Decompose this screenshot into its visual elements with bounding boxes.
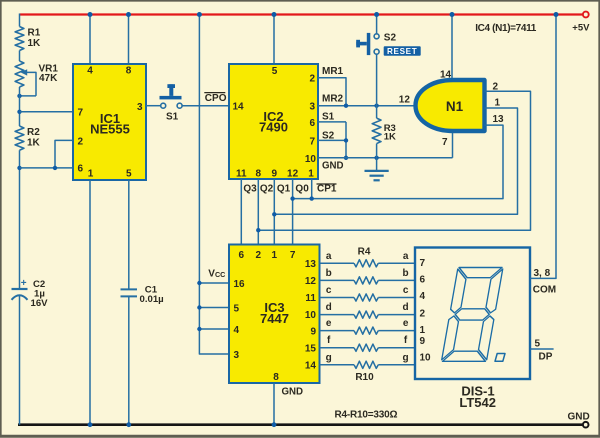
wire Q2 to N1 pin2 — [258, 91, 530, 230]
junction pin1 gnd — [88, 422, 93, 427]
wire Q0 to N1 pin13 — [293, 125, 503, 199]
svg-text:+: + — [21, 278, 27, 289]
resistor R7 — [354, 311, 378, 318]
svg-text:e: e — [326, 318, 332, 329]
node CPO — [204, 93, 226, 104]
svg-text:7: 7 — [442, 137, 448, 148]
svg-text:0.01µ: 0.01µ — [140, 294, 164, 305]
svg-text:a: a — [326, 251, 332, 262]
wire IC3 pin16 — [199, 282, 229, 284]
svg-text:7: 7 — [290, 250, 296, 261]
svg-text:MR1: MR1 — [322, 66, 344, 77]
wire C1 to ground rail — [128, 296, 130, 424]
pin 2 label — [420, 309, 426, 320]
label a left — [326, 251, 332, 262]
wire C2 to ground rail — [19, 295, 21, 424]
wire DP stub — [530, 348, 554, 350]
wire IC3 to R8 — [320, 330, 355, 332]
wire R2 to C2 — [19, 150, 21, 289]
svg-text:IC4 (N1)=7411: IC4 (N1)=7411 — [475, 23, 537, 34]
wire VR1-R2 — [19, 87, 21, 126]
label MR1 — [322, 66, 344, 77]
+5V terminal — [583, 12, 589, 18]
wire Q1 — [273, 179, 275, 245]
svg-text:LT542: LT542 — [459, 395, 496, 410]
op-amp IC1 body — [73, 64, 146, 180]
svg-text:CPO: CPO — [205, 93, 227, 104]
node DP — [539, 352, 553, 363]
label R10 — [355, 372, 374, 383]
wire IC2 S1 pin6 — [318, 121, 346, 123]
svg-text:16V: 16V — [31, 298, 49, 309]
pin 6 label — [420, 274, 426, 285]
wire IC1 pin4 to +5V — [89, 15, 91, 65]
label d right — [403, 302, 409, 313]
wire IC1 pin6 — [20, 167, 74, 169]
wire VR1 wiper to rail — [20, 95, 37, 97]
svg-text:4: 4 — [87, 66, 93, 77]
pin 4 label — [420, 291, 426, 302]
pin 14 label — [233, 102, 245, 113]
pin 2 label — [256, 250, 262, 261]
junction pin7 tap — [17, 110, 21, 114]
junction CP1 — [310, 196, 314, 200]
label R3 — [384, 123, 396, 142]
potentiometer VR1 — [15, 61, 36, 96]
pin 8 label — [256, 169, 262, 180]
svg-text:g: g — [403, 352, 409, 363]
pin 8 label — [126, 66, 132, 77]
svg-text:14: 14 — [233, 102, 245, 113]
label GND pin8 — [282, 386, 304, 397]
+5V supply rail — [20, 13, 583, 15]
svg-text:14: 14 — [305, 361, 317, 372]
wire IC3 to R9 — [320, 347, 355, 349]
svg-text:9: 9 — [272, 169, 278, 180]
label b right — [403, 268, 409, 279]
svg-text:14: 14 — [440, 70, 452, 81]
ground rail — [18, 423, 583, 426]
pin 7 label — [78, 108, 84, 119]
pin 9 label — [272, 169, 278, 180]
junction wiper — [17, 94, 21, 98]
wire R4 to display — [378, 262, 415, 264]
wire MR1 — [318, 78, 346, 106]
pin 6 label — [309, 118, 315, 129]
svg-text:Q2: Q2 — [260, 183, 274, 194]
pin 9 label — [420, 336, 426, 347]
svg-text:b: b — [326, 268, 332, 279]
pin 14 label — [440, 70, 452, 81]
svg-text:6: 6 — [420, 274, 426, 285]
junction pin5 rail — [272, 12, 277, 17]
pin 2 label — [309, 74, 315, 85]
junction S2-MR2 — [374, 104, 378, 108]
svg-text:Q1: Q1 — [277, 183, 291, 194]
svg-text:12: 12 — [399, 94, 411, 105]
junction S2 link — [344, 138, 348, 142]
counter IC2 body — [229, 64, 318, 179]
svg-text:R4-R10=330Ω: R4-R10=330Ω — [335, 410, 398, 421]
wire S2 to MR2 — [376, 54, 378, 118]
pin 13 label — [305, 259, 317, 270]
label RESET — [384, 46, 421, 56]
wire MR2 — [318, 105, 416, 107]
svg-text:2: 2 — [309, 74, 315, 85]
switch S2 — [356, 33, 379, 55]
decoder IC3 body — [229, 245, 320, 384]
+5V label — [572, 23, 590, 34]
svg-text:1: 1 — [308, 169, 314, 180]
wire R9 to display — [378, 347, 415, 349]
label a right — [403, 251, 409, 262]
label IC3 — [260, 300, 289, 326]
note IC4 — [475, 23, 537, 34]
node CP1 — [317, 184, 337, 195]
pin 15 label — [305, 344, 317, 355]
svg-text:1K: 1K — [384, 132, 396, 143]
pin 10 label — [305, 310, 317, 321]
resistor R2 — [15, 126, 24, 150]
wire R6 to display — [378, 297, 415, 299]
svg-text:4: 4 — [420, 291, 426, 302]
pin 2 label — [493, 82, 499, 93]
pin 7 label — [309, 136, 315, 147]
svg-text:9: 9 — [420, 336, 426, 347]
svg-text:b: b — [403, 268, 409, 279]
label DIS-1 — [459, 384, 496, 410]
wire Q2 — [257, 179, 259, 245]
svg-text:13: 13 — [493, 114, 505, 125]
junction Vcc rail — [197, 12, 202, 17]
pin 12 label — [399, 94, 411, 105]
junction pin4 rail — [88, 12, 93, 17]
svg-text:15: 15 — [305, 344, 317, 355]
junction Q0 — [290, 196, 294, 200]
svg-text:8: 8 — [256, 169, 262, 180]
label S2 pin — [322, 131, 335, 142]
pin 12 label — [287, 169, 299, 180]
label R1 — [28, 28, 42, 49]
svg-text:2: 2 — [256, 250, 262, 261]
svg-text:GND: GND — [568, 412, 590, 423]
pin 5 label — [535, 339, 541, 350]
label MR2 — [322, 93, 344, 104]
decimal point — [495, 354, 505, 362]
label f left — [327, 335, 331, 346]
GND terminal — [583, 422, 589, 428]
label e right — [403, 318, 409, 329]
pin 8 label — [273, 372, 279, 383]
svg-text:1K: 1K — [28, 38, 42, 49]
wire Q3 — [240, 179, 242, 245]
svg-text:GND: GND — [322, 160, 344, 171]
display DIS-1 body — [415, 248, 530, 380]
svg-text:9: 9 — [310, 327, 316, 338]
svg-text:16: 16 — [234, 279, 246, 290]
resistor R5 — [354, 277, 378, 284]
svg-text:R4: R4 — [358, 246, 371, 257]
wire COM to +5V — [530, 15, 556, 279]
wire R10 to display — [378, 364, 415, 366]
wire IC3 to R7 — [320, 314, 355, 316]
resistor R4 — [354, 260, 378, 267]
pin 1 label — [272, 250, 278, 261]
svg-text:13: 13 — [305, 259, 317, 270]
pin 5 label — [234, 304, 240, 315]
wire IC3 pin8 to ground rail — [273, 383, 275, 425]
label R4 — [358, 246, 371, 257]
svg-text:3, 8: 3, 8 — [534, 268, 551, 279]
seven-segment digit — [441, 268, 503, 362]
wire R7 to display — [378, 314, 415, 316]
pin 7 label — [442, 137, 448, 148]
svg-text:5: 5 — [272, 66, 278, 77]
pin 16 label — [234, 279, 246, 290]
wire R1-VR1 — [19, 51, 21, 62]
capacitor C1 — [121, 289, 138, 296]
ground symbol — [365, 158, 389, 181]
pin 14 label — [305, 361, 317, 372]
wire CP1 stub — [311, 179, 313, 199]
wire IC2 S2 pin7 — [318, 139, 346, 141]
resistor R8 — [354, 327, 378, 334]
svg-text:1: 1 — [88, 168, 94, 179]
wire IC1 pin7 — [20, 111, 74, 113]
pin 4 label — [87, 66, 93, 77]
wire R8 to display — [378, 330, 415, 332]
junction pin8 gnd — [272, 422, 277, 427]
pin 1 label — [420, 325, 426, 336]
resistor R10 — [354, 361, 378, 368]
pin 10 label — [305, 154, 317, 165]
wire S1-S2-GND link — [345, 122, 347, 158]
svg-text:6: 6 — [309, 118, 315, 129]
label Q3 — [243, 183, 257, 194]
label g left — [326, 352, 332, 363]
svg-text:COM: COM — [533, 285, 556, 296]
junction pin6 tap — [17, 166, 21, 170]
svg-text:11: 11 — [236, 169, 247, 180]
label IC1 — [90, 111, 130, 137]
svg-text:3: 3 — [309, 102, 315, 113]
svg-text:10: 10 — [305, 154, 317, 165]
pin 1 label — [308, 169, 314, 180]
pin 11 label — [236, 169, 247, 180]
pin 9 label — [310, 327, 316, 338]
svg-text:12: 12 — [305, 276, 317, 287]
svg-text:12: 12 — [287, 169, 299, 180]
svg-text:S1: S1 — [322, 112, 335, 123]
label GND pin10 — [322, 160, 344, 171]
svg-text:CP1: CP1 — [317, 184, 337, 195]
pin 5 label — [272, 66, 278, 77]
svg-text:S1: S1 — [166, 112, 179, 123]
label C1 — [140, 285, 164, 305]
pin 13 label — [493, 114, 505, 125]
svg-text:8: 8 — [273, 372, 279, 383]
wire IC2 pin5 to +5V — [273, 15, 275, 65]
svg-text:c: c — [326, 285, 332, 296]
pin 7 label — [420, 258, 426, 269]
GND label — [568, 412, 590, 423]
wire IC3 pin5 — [199, 307, 229, 309]
pin 11 label — [305, 293, 316, 304]
pin 3 label — [137, 102, 143, 113]
resistor R3 — [372, 118, 381, 143]
label Q2 — [260, 183, 274, 194]
svg-text:1K: 1K — [27, 137, 41, 148]
label Q0 — [295, 183, 309, 194]
svg-text:Q3: Q3 — [243, 183, 257, 194]
label d left — [326, 302, 332, 313]
junction gnd link — [344, 156, 348, 160]
svg-text:2: 2 — [78, 136, 84, 147]
wire IC1 pin2 — [55, 140, 73, 168]
junction Vcc pin5 — [197, 305, 201, 309]
pin 1 label — [495, 98, 501, 109]
pin 12 label — [305, 276, 317, 287]
label S1 — [166, 112, 179, 123]
svg-text:GND: GND — [282, 386, 304, 397]
wire IC3 to R6 — [320, 297, 355, 299]
svg-text:e: e — [403, 318, 409, 329]
svg-text:10: 10 — [305, 310, 317, 321]
svg-text:S2: S2 — [384, 33, 397, 44]
svg-text:a: a — [403, 251, 409, 262]
junction C1 gnd — [126, 422, 131, 427]
svg-text:c: c — [403, 285, 409, 296]
label b left — [326, 268, 332, 279]
junction pin8 rail — [126, 12, 131, 17]
label IC2 — [259, 109, 288, 135]
wire Vcc line — [199, 15, 229, 355]
svg-text:7490: 7490 — [259, 120, 288, 135]
junction R3 gnd — [374, 156, 378, 160]
pin 10 label — [420, 352, 432, 363]
junction Vcc pin4 — [197, 327, 201, 331]
svg-text:NE555: NE555 — [90, 122, 130, 137]
svg-text:Q0: Q0 — [295, 183, 309, 194]
wire IC1 pin3 to S1 — [146, 105, 161, 107]
junction Q2 — [256, 228, 260, 232]
wire R3 to gnd net — [376, 144, 378, 158]
label S1 pin — [322, 112, 335, 123]
svg-text:g: g — [326, 352, 332, 363]
svg-text:S2: S2 — [322, 131, 335, 142]
wire IC3 to R5 — [320, 279, 355, 281]
svg-text:7447: 7447 — [260, 311, 289, 326]
junction COM rail — [554, 12, 559, 17]
junction pin14 rail — [450, 12, 455, 17]
svg-text:4: 4 — [234, 325, 240, 336]
svg-text:7: 7 — [309, 136, 315, 147]
svg-text:1: 1 — [420, 325, 426, 336]
capacitor C2 — [12, 289, 28, 300]
label c left — [326, 285, 332, 296]
label N1 — [446, 99, 464, 114]
svg-text:7: 7 — [78, 108, 84, 119]
svg-text:d: d — [403, 302, 409, 313]
svg-text:5: 5 — [234, 304, 240, 315]
resistor R1 — [15, 27, 24, 51]
pin 6 label — [78, 164, 84, 175]
label c right — [403, 285, 409, 296]
label g right — [403, 352, 409, 363]
pin 3 label — [234, 350, 240, 361]
label R2 — [27, 127, 41, 148]
wire IC3 pin4 — [199, 328, 229, 330]
svg-text:6: 6 — [78, 164, 84, 175]
wire IC1 pin1 to ground rail — [89, 180, 91, 425]
svg-text:1: 1 — [495, 98, 501, 109]
node COM — [533, 285, 556, 296]
svg-text:5: 5 — [126, 168, 132, 179]
svg-text:VCC: VCC — [208, 268, 225, 279]
label C2 — [21, 278, 48, 309]
resistor R6 — [354, 294, 378, 301]
junction S2 rail — [374, 12, 379, 17]
wire R5 to display — [378, 279, 415, 281]
svg-text:R10: R10 — [355, 372, 374, 383]
switch S1 — [160, 84, 183, 108]
junction Q1 — [272, 212, 276, 216]
svg-text:8: 8 — [126, 66, 132, 77]
svg-text:11: 11 — [305, 293, 316, 304]
pin 1 label — [88, 168, 94, 179]
wire GND net — [318, 157, 453, 159]
svg-text:6: 6 — [239, 250, 245, 261]
junction MR1-MR2 — [344, 104, 348, 108]
wire Q0 — [292, 179, 294, 245]
label f right — [404, 335, 408, 346]
svg-text:7: 7 — [420, 258, 426, 269]
pin 3 label — [309, 102, 315, 113]
note R4-R10 — [335, 410, 398, 421]
wire Q1 to N1 pin1 — [274, 108, 517, 214]
pin 6 label — [239, 250, 245, 261]
svg-text:+5V: +5V — [572, 23, 590, 34]
junction Vcc pin16 — [197, 281, 201, 285]
pin 3,8 label — [534, 268, 551, 279]
svg-text:3: 3 — [234, 350, 240, 361]
svg-text:RESET: RESET — [387, 47, 418, 56]
label VR1 — [39, 63, 59, 83]
pin 2 label — [78, 136, 84, 147]
wire N1 pin14 to +5V — [451, 15, 453, 79]
svg-text:1: 1 — [272, 250, 278, 261]
resistor R9 — [354, 344, 378, 351]
wire IC3 to R10 — [320, 364, 355, 366]
svg-text:47K: 47K — [39, 73, 58, 84]
wire IC3 to R4 — [320, 262, 355, 264]
svg-text:N1: N1 — [446, 99, 464, 114]
label Q1 — [277, 183, 291, 194]
node Vcc label — [208, 268, 225, 279]
svg-text:10: 10 — [420, 352, 432, 363]
svg-text:2: 2 — [420, 309, 426, 320]
wire IC1 pin8 to +5V — [128, 15, 130, 65]
svg-text:MR2: MR2 — [322, 93, 344, 104]
pin 7 label — [290, 250, 296, 261]
and-gate N1 — [416, 80, 485, 131]
svg-text:5: 5 — [535, 339, 541, 350]
label S2 — [384, 33, 397, 44]
wire left rail top — [19, 14, 21, 27]
label e left — [326, 318, 332, 329]
wire S1 to IC2 pin14 — [182, 105, 229, 107]
wire S2 from +5V — [376, 15, 378, 34]
